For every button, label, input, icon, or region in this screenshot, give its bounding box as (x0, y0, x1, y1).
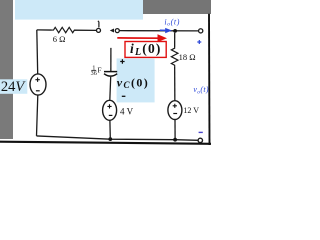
junction dot bottom (capacitor branch) (108, 137, 112, 141)
value label 1/36 F (91, 65, 102, 77)
switch motion arrow (110, 29, 114, 33)
left wire down from corner (36, 30, 39, 74)
right border line (208, 14, 211, 145)
capacitor minus sign (122, 95, 126, 97)
capacitor branch wire upper (110, 48, 112, 71)
blue current arrow io (160, 29, 166, 31)
top-right gray bar (143, 0, 211, 14)
node junction dot top (173, 29, 177, 33)
top light-blue highlight (15, 0, 143, 20)
resistor 18ohm zigzag vertical (171, 47, 178, 66)
svg-text:io(t): io(t) (164, 17, 180, 27)
red annotation arrow iL(0) (117, 37, 159, 39)
voltage source 24V (30, 74, 46, 95)
highlight behind vC(0) (117, 58, 155, 102)
blue minus terminal bottom (199, 131, 203, 133)
svg-text:4 V: 4 V (120, 107, 134, 117)
svg-text:24V: 24V (1, 79, 27, 95)
junction dot bottom (12V branch) (173, 138, 177, 142)
wire top-left horizontal (37, 29, 52, 31)
capacitor plus sign (120, 59, 124, 63)
svg-text:36: 36 (91, 70, 97, 77)
svg-text:vC(0): vC(0) (117, 75, 149, 90)
bottom wire (37, 136, 199, 140)
switch contact circle right (115, 29, 119, 33)
wire 4V to bottom junction (109, 120, 111, 139)
wire 18ohm to 12V source (174, 66, 176, 101)
blue plus terminal top (197, 40, 201, 44)
svg-text:18 Ω: 18 Ω (179, 52, 196, 62)
wire switch to output node (119, 30, 198, 32)
wire node down to 18ohm (174, 33, 176, 47)
wire 24V to bottom-left corner (37, 95, 38, 136)
red annotation box (125, 42, 166, 58)
voltage source 4V (103, 100, 117, 120)
voltage source 12V (168, 101, 182, 120)
wire resistor to switch (74, 29, 96, 31)
resistor R 6ohm zigzag (52, 27, 77, 32)
wire 12V to bottom (174, 120, 176, 140)
capacitor wire to 4V source (109, 77, 112, 101)
highlight behind 24V (0, 79, 27, 94)
svg-text:6 Ω: 6 Ω (53, 34, 66, 44)
svg-text:12 V: 12 V (183, 106, 199, 115)
svg-text:F: F (98, 66, 102, 74)
output terminal bottom open circle (198, 138, 202, 142)
bottom border line (0, 142, 211, 144)
capacitor C plates (104, 71, 117, 73)
svg-text:vo(t): vo(t) (193, 85, 208, 95)
switch contact circle left (97, 28, 101, 32)
output terminal top open circle (199, 29, 203, 33)
switch lever (open, vertical) (98, 21, 99, 27)
left gray margin strip (0, 0, 13, 139)
svg-text:iL(0): iL(0) (130, 41, 162, 58)
